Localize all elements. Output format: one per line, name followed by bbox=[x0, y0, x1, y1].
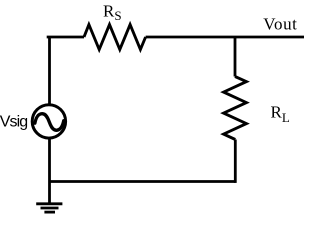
voltage source sine wave bbox=[35, 114, 64, 131]
svg-text:Vout: Vout bbox=[263, 15, 297, 34]
voltage source Vsig (AC source circle) bbox=[32, 105, 65, 138]
wire: top rail right segment from RS to right edge (node Vout) bbox=[146, 36, 304, 39]
svg-text:RS: RS bbox=[103, 2, 122, 24]
resistor RS bbox=[84, 25, 146, 50]
wire: left vertical from source to ground node bbox=[48, 138, 51, 203]
ground bbox=[36, 204, 62, 212]
resistor RL bbox=[224, 77, 247, 140]
svg-text:Vsig: Vsig bbox=[0, 113, 27, 130]
node junction at Vout / RL top bbox=[234, 37, 237, 77]
wire: right vertical from RL to bottom rail bbox=[234, 140, 237, 183]
svg-text:RL: RL bbox=[271, 103, 290, 126]
wire: bottom rail from ground node to RL bottom corner bbox=[50, 180, 236, 183]
wire: left vertical from top rail to source bbox=[48, 37, 51, 105]
wire: top rail left segment from source top corner to RS bbox=[48, 37, 84, 38]
